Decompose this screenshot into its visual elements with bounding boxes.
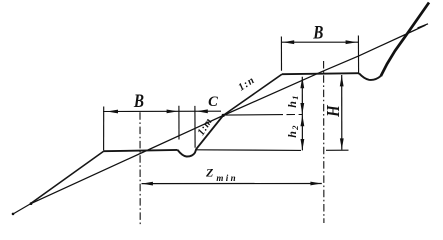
arrow h1 top (300, 77, 304, 88)
label B lower (133, 90, 144, 111)
slope 1:n segment between benches (223, 74, 282, 115)
arrow h1 bottom (300, 103, 304, 114)
lower bench surface (104, 150, 178, 151)
dimension line h1 h2 (301, 77, 303, 151)
reference line at junction level (224, 114, 303, 117)
reference line at lower bench level (197, 149, 349, 152)
arrow B2 left (283, 40, 294, 44)
label h2 (285, 125, 300, 138)
dimension line Zmin (142, 183, 322, 185)
dimension line B2 (282, 41, 359, 43)
arrow B2 right (346, 40, 357, 44)
dimension line H (341, 75, 343, 150)
arrow Zmin right (310, 182, 321, 186)
upper bench ditch (359, 73, 381, 80)
lower bench left slope (31, 151, 104, 204)
slope 1:m segment (196, 115, 223, 148)
svg-text:B: B (312, 22, 323, 43)
label 1:m (196, 116, 215, 137)
junction node of slopes and diagonal (222, 114, 225, 117)
arrow B1 left (107, 110, 118, 114)
label h1 (285, 95, 300, 108)
label B upper (312, 22, 323, 43)
svg-text:H: H (324, 104, 343, 118)
label 1:n (237, 75, 258, 94)
average slope line 1:n (long thin diagonal) (13, 25, 426, 214)
svg-text:C: C (208, 94, 218, 110)
extension line B2 left (280, 37, 282, 71)
arrow H top (340, 75, 344, 86)
axis line upper (dash-dot) (323, 61, 325, 223)
svg-text:B: B (133, 90, 144, 111)
arrow H bottom (340, 138, 344, 149)
dimension line B1+C (103, 110, 221, 112)
extension line B1 right (178, 106, 180, 140)
convergence node lower left (30, 202, 33, 205)
natural ground line (381, 3, 429, 77)
extension line B2 right (357, 36, 359, 75)
extension line C right (194, 106, 196, 148)
diagonal terminal hook stroke (418, 24, 429, 28)
arrow h2 top (301, 115, 305, 126)
label H (324, 104, 343, 118)
arrow C (outside, pointing left) (197, 109, 208, 113)
arrow h2 bottom (301, 139, 305, 150)
arrow Zmin left (142, 182, 153, 186)
lower bench ditch (178, 149, 197, 157)
upper bench surface (282, 73, 359, 74)
extension line B1 left (103, 107, 105, 151)
diagonal end dot (12, 213, 15, 216)
arrow B1 right (167, 110, 178, 114)
axis line lower (dash-dot) (139, 112, 141, 226)
